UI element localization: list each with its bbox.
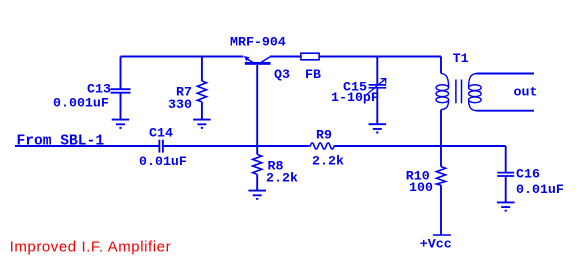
wire C14 to Q3 base junction	[164, 145, 257, 147]
svg-text:+Vcc: +Vcc	[420, 237, 452, 252]
transformer T1 secondary winding	[469, 74, 482, 111]
wire T1 secondary bottom to out terminal	[477, 110, 535, 112]
svg-text:MRF-904: MRF-904	[230, 35, 286, 50]
ground below C16	[497, 202, 515, 210]
resistor R10	[436, 167, 445, 186]
svg-text:C13: C13	[87, 81, 111, 96]
wire R9 to C16 corner	[335, 145, 506, 147]
svg-text:C16: C16	[516, 167, 540, 182]
svg-text:FB: FB	[305, 67, 321, 82]
svg-text:0.001uF: 0.001uF	[53, 96, 109, 111]
ground below C13	[112, 120, 130, 128]
svg-text:out: out	[514, 85, 538, 100]
wire top rail C13 corner to Q3 emitter	[121, 56, 244, 58]
svg-text:2.2k: 2.2k	[312, 154, 344, 169]
ground below C15	[369, 124, 387, 132]
svg-text:100: 100	[409, 180, 433, 195]
svg-text:1-10pF: 1-10pF	[331, 90, 379, 105]
ferrite bead FB	[301, 53, 319, 60]
wire T1 secondary top to out terminal	[477, 73, 535, 75]
transformer T1 core	[456, 80, 462, 104]
capacitor C16	[497, 146, 514, 202]
capacitor C15 (variable)	[366, 57, 386, 124]
svg-text:Q3: Q3	[274, 67, 290, 82]
wire Q3 base down to input rail	[256, 65, 258, 146]
capacitor C13	[111, 57, 131, 120]
transformer T1 primary winding	[436, 57, 449, 110]
capacitor C14	[159, 140, 163, 153]
transistor Q3	[244, 56, 271, 65]
svg-text:Improved I.F. Amplifier: Improved I.F. Amplifier	[10, 238, 171, 255]
svg-text:330: 330	[168, 97, 192, 112]
svg-text:0.01uF: 0.01uF	[516, 182, 564, 197]
ground below R8	[248, 191, 266, 199]
wire base junction to R9	[257, 145, 309, 147]
resistor R8	[253, 146, 262, 190]
power terminal +Vcc	[433, 234, 451, 236]
svg-text:0.01uF: 0.01uF	[139, 154, 187, 169]
wire FB to T1 corner	[319, 56, 441, 58]
svg-text:T1: T1	[453, 51, 469, 66]
ground below R7	[193, 120, 211, 128]
wire Q3 collector to FB	[270, 56, 301, 58]
svg-text:R9: R9	[316, 127, 332, 142]
resistor R7	[197, 57, 206, 120]
resistor R9	[309, 143, 335, 149]
svg-text:2.2k: 2.2k	[266, 171, 298, 186]
wire input rail under From SBL-1 to C14	[15, 145, 159, 147]
svg-text:C14: C14	[149, 125, 173, 140]
svg-text:From SBL-1: From SBL-1	[17, 133, 105, 149]
wire R10 to +Vcc terminal	[440, 185, 442, 235]
wire T1 primary bottom to R10	[440, 110, 442, 167]
